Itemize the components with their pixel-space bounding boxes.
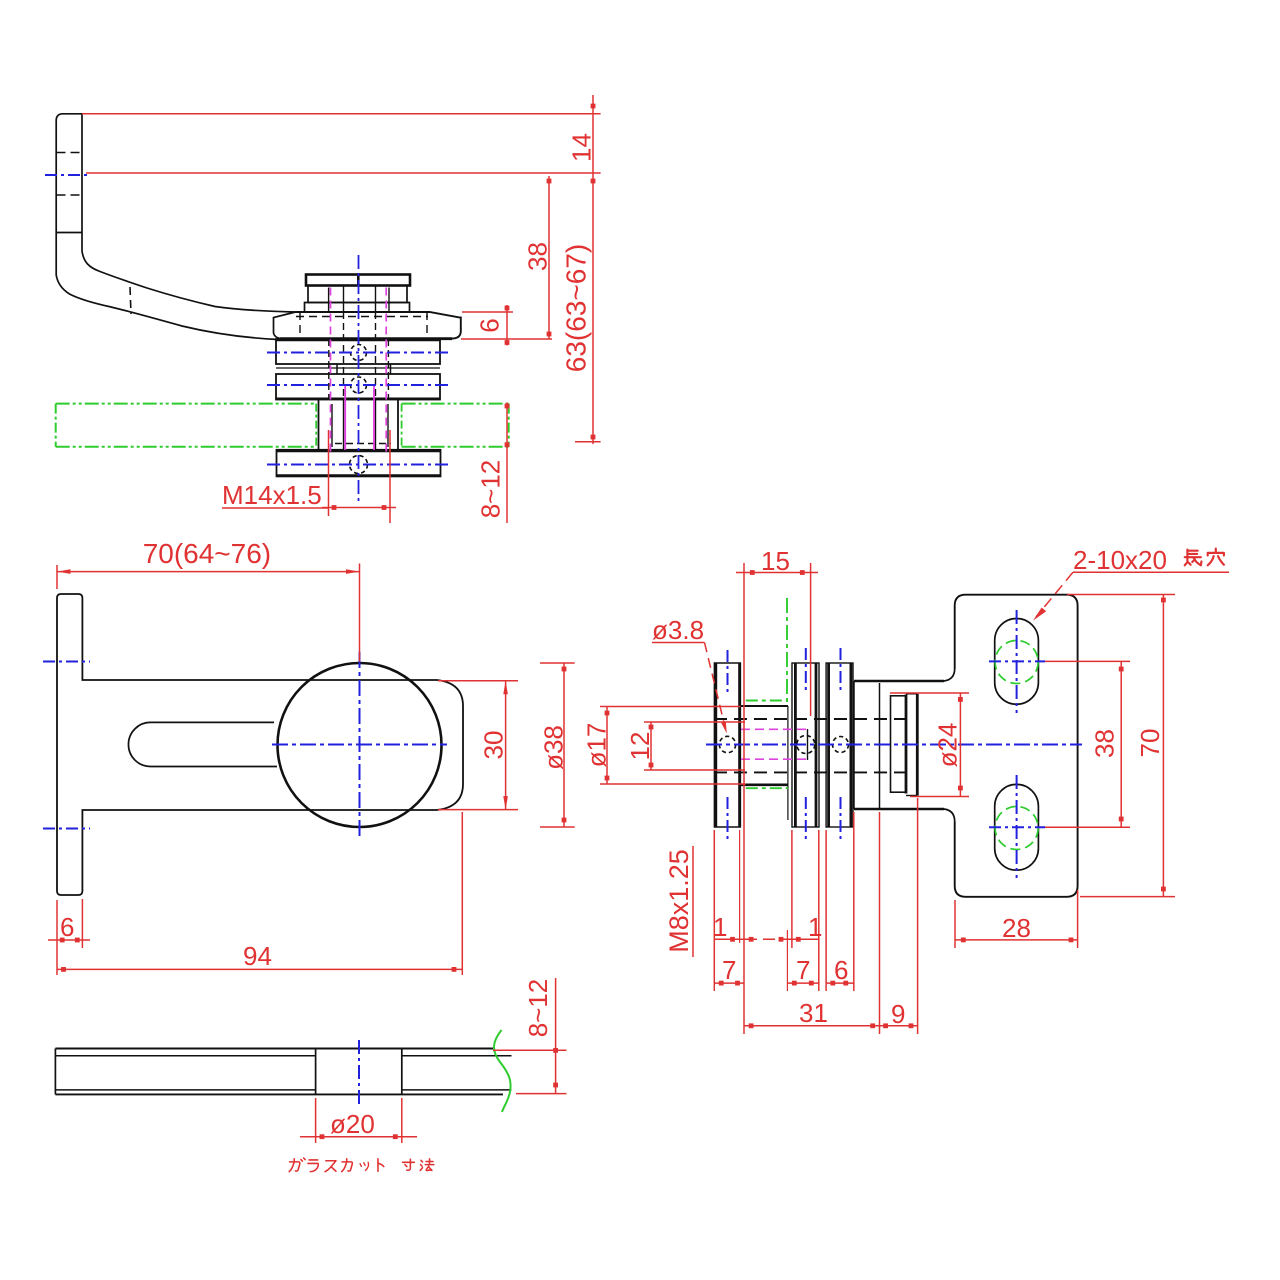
slot centerlines (blue): [1016, 610, 1018, 713]
clamp disc circle: [278, 663, 442, 827]
svg-text:31: 31: [799, 998, 828, 1028]
chain dims ext lines: [713, 830, 715, 991]
dimension 15: [743, 563, 745, 1034]
dimension o20: [315, 1098, 317, 1143]
middle disc: [792, 663, 819, 827]
svg-text:9: 9: [891, 999, 905, 1029]
mounting plate: [955, 595, 1078, 897]
bottom disc screw hole: [350, 456, 368, 474]
svg-text:ø20: ø20: [330, 1109, 375, 1139]
break line (green): [494, 1030, 511, 1112]
dimension 14 ext lines: [82, 113, 601, 115]
VIEW D : front view (right): [582, 545, 1230, 1034]
hole centerline (blue): [358, 1040, 360, 1105]
dimension 8~12 (side view): [506, 403, 508, 524]
third disc: [826, 663, 853, 827]
svg-text:ø3.8: ø3.8: [652, 615, 704, 645]
pad hidden lines (dashed): [299, 312, 301, 338]
thread lines (magenta dashed): [330, 288, 332, 456]
knob neck: [308, 286, 407, 303]
slot hole upper (10x20): [995, 619, 1039, 705]
disc centerlines (blue): [267, 352, 452, 354]
svg-text:14: 14: [567, 133, 597, 162]
circle centerlines (blue): [359, 652, 361, 838]
svg-text:1: 1: [713, 912, 727, 942]
dimension 1 / 1: [714, 938, 818, 940]
sleeve between discs: [740, 705, 788, 707]
svg-text:M14x1.5: M14x1.5: [222, 480, 322, 510]
adjustment slot: [128, 722, 277, 766]
sun: [403, 1159, 415, 1170]
svg-text:70(64~76): 70(64~76): [143, 538, 271, 569]
ra: [308, 1160, 318, 1172]
dimension 70(64~76): [56, 565, 58, 589]
knob cylinder o24: [890, 695, 892, 793]
dimension M14x1.5: [328, 430, 330, 516]
dimension 38 line: [548, 176, 550, 339]
dimension o17: [600, 706, 741, 708]
VIEW A : side view (top-left): [45, 95, 601, 523]
VIEW C : glass section (bottom-left): [55, 978, 566, 1172]
bracket arm vertical bar: [62, 114, 296, 312]
slot hole lower (10x20): [995, 784, 1039, 870]
svg-text:6: 6: [60, 912, 74, 942]
svg-text:ø38: ø38: [539, 725, 569, 770]
dimension 6 ext + line: [462, 311, 513, 313]
dimension 7 / 7 / 6: [714, 982, 744, 984]
clamp disc 2: [276, 374, 440, 400]
svg-text:38: 38: [523, 242, 553, 271]
dimension 12: [644, 721, 745, 723]
svg-text:38: 38: [1090, 729, 1120, 758]
left disc hole o3.8: [719, 736, 735, 752]
M8 thread lines (magenta dashed): [741, 728, 806, 730]
screw shank lines: [343, 286, 345, 313]
disc1 screw hole: [351, 345, 367, 361]
hou: [420, 1159, 434, 1171]
svg-text:6: 6: [475, 318, 505, 332]
dimension o38 (shared with view D discs): [540, 662, 575, 664]
bolt circles in slots (green dashed): [995, 641, 1038, 684]
disc centerlines (blue): [727, 650, 729, 692]
bar centerline (blue): [45, 174, 88, 176]
svg-text:30: 30: [479, 731, 509, 760]
tapped hole end: [807, 729, 809, 760]
dimension 30: [438, 680, 518, 682]
chou: [1185, 550, 1202, 566]
su: [325, 1161, 336, 1172]
svg-text:6: 6: [834, 955, 848, 985]
glass panel (green phantom outline): [56, 404, 509, 447]
svg-text:94: 94: [243, 941, 272, 971]
VIEW B : top view (middle-left): [43, 538, 575, 975]
arm pad around screw: [280, 312, 461, 339]
svg-text:12: 12: [625, 732, 655, 761]
svg-text:1: 1: [808, 912, 822, 942]
bottom disc: [277, 450, 441, 477]
knob collar: [305, 303, 410, 313]
clamp disc 1: [276, 339, 440, 364]
ga: [289, 1158, 305, 1172]
svg-text:M8x1.25: M8x1.25: [664, 849, 694, 953]
neck between discs: [336, 364, 338, 374]
hidden bore lines (dashed): [714, 718, 906, 720]
glass hole edges: [315, 1049, 317, 1095]
glass panel section: [55, 1048, 493, 1050]
svg-text:63(63~67): 63(63~67): [561, 244, 592, 372]
arm pad edge-on: [854, 680, 944, 683]
main centerline (blue): [706, 744, 1082, 746]
dimension 28: [954, 900, 956, 948]
arm bend line (dashed): [130, 287, 131, 314]
small tsu: [360, 1162, 369, 1170]
dimension 6 (flange): [56, 900, 58, 975]
dimension 38 (plate holes): [1045, 660, 1130, 662]
dimension 8~12 (section): [493, 1049, 567, 1051]
ka: [342, 1159, 353, 1172]
dimension 70 (plate): [1067, 594, 1175, 596]
left clamp disc: [714, 663, 740, 827]
dimension 94: [461, 812, 463, 975]
svg-text:15: 15: [761, 546, 790, 576]
dimension line 14 / 63: [592, 95, 594, 444]
third disc hole: [833, 737, 849, 753]
clamp knob flange: [306, 275, 410, 286]
disc2 screw hole: [351, 377, 367, 393]
to: [378, 1159, 384, 1171]
ana: [1208, 549, 1224, 566]
label glass-cut note (katakana/kanji drawn as paths): [289, 1158, 434, 1172]
middle disc hole: [797, 736, 815, 754]
clamp centerline vertical (blue): [358, 255, 360, 503]
dimension 31 / 9: [744, 1025, 918, 1027]
svg-text:8~12: 8~12: [476, 460, 506, 519]
glass plane (green): [786, 598, 788, 702]
bar bend lines (dashed): [57, 152, 83, 154]
svg-text:2-10x20: 2-10x20: [1073, 545, 1167, 575]
svg-text:7: 7: [796, 955, 810, 985]
svg-text:7: 7: [722, 955, 736, 985]
sleeve through glass: [318, 399, 320, 450]
ext line pad bottom: [461, 338, 552, 340]
svg-text:ø24: ø24: [933, 723, 963, 768]
ext line glass bottom right: [575, 441, 601, 443]
flange hole centerlines (blue): [43, 661, 90, 663]
svg-text:8~12: 8~12: [523, 979, 553, 1038]
dimension o24: [890, 692, 969, 694]
svg-text:ø17: ø17: [582, 723, 612, 768]
bracket plate outline: [57, 594, 463, 895]
svg-text:28: 28: [1002, 913, 1031, 943]
svg-text:70: 70: [1135, 729, 1165, 758]
nut hidden edge (dashed): [335, 443, 391, 445]
